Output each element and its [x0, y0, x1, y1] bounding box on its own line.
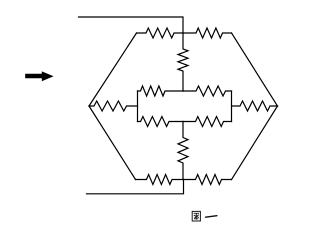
- resistor left (left vertex L to inner rect left edge): [89, 101, 138, 111]
- resistor inner-top-left (inner rect top edge, left): [138, 86, 184, 96]
- resistor inner-bottom-right (inner rect bottom edge, right): [183, 117, 232, 127]
- caption character 一 (dash): [206, 216, 217, 218]
- resistor inner-top-right (inner rect top edge, right): [183, 86, 232, 96]
- resistor top-right (outer top edge, right of node T): [183, 28, 232, 38]
- wire inner rectangle left edge: [137, 91, 139, 122]
- resistor vertical bottom (inner bottom node to node B): [178, 122, 188, 180]
- wire bottom lead: [87, 180, 184, 194]
- wire hexagon edge TL-L: [89, 33, 137, 106]
- wire top lead: [79, 17, 184, 33]
- wire hexagon edge R-BR: [232, 106, 278, 180]
- resistor top-left (outer top edge, left of node T): [137, 28, 184, 38]
- wire hexagon edge L-BL: [89, 106, 136, 180]
- wire inner rectangle right edge: [231, 91, 233, 122]
- resistor vertical top (node T to inner top node): [178, 33, 188, 91]
- resistor inner-bottom-left (inner rect bottom edge, left): [138, 117, 184, 127]
- resistor bottom-left (outer bottom edge, left of node B): [136, 175, 184, 185]
- current direction arrow (input): [25, 71, 53, 81]
- resistor bottom-right (outer bottom edge, right of node B): [184, 175, 232, 185]
- wire hexagon edge TR-R: [232, 33, 278, 106]
- caption character 图 (boxed glyph): [192, 211, 200, 221]
- resistor right (inner rect right edge to right vertex R): [232, 101, 278, 111]
